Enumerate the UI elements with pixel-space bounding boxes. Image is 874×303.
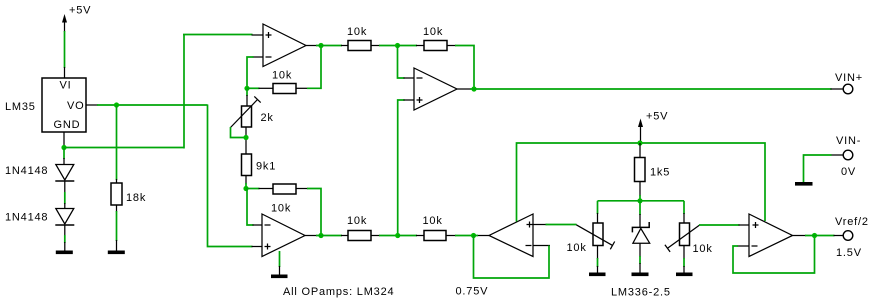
wire D1 to D2 bbox=[64, 181, 66, 209]
wire 2k bottom to 9k1 bbox=[245, 127, 247, 154]
svg-text:0.75V: 0.75V bbox=[456, 286, 489, 298]
resistor R 10k feedback B bbox=[246, 184, 308, 215]
power +5V supply 2 bbox=[638, 111, 668, 144]
wire opamp1 minus input bbox=[247, 57, 263, 89]
resistor R 9k1 bbox=[242, 154, 277, 176]
resistor R 10k top row 1 bbox=[347, 26, 398, 51]
node feedback-A junction bbox=[244, 86, 249, 91]
wire into opamp1 plus input bbox=[183, 34, 263, 37]
zener D3 LM336-2.5 bbox=[611, 201, 671, 299]
wire opamp2 minus input bbox=[398, 46, 415, 78]
diode D2 1N4148 bbox=[5, 209, 74, 226]
ground under left trimmer bbox=[589, 246, 606, 277]
wire opamp3 output bbox=[305, 235, 348, 237]
wire 1k5 bottom bbox=[639, 182, 641, 202]
wire opamp5 plus input to trimmer1 wiper bbox=[533, 224, 577, 226]
trimmer R 10k left bbox=[567, 201, 615, 254]
resistor R 10k feedback A bbox=[247, 70, 308, 94]
trimmer R 10k right bbox=[665, 201, 713, 255]
wire vertical riser to opamp1 bbox=[183, 35, 185, 149]
svg-text:VI: VI bbox=[60, 80, 72, 92]
op-amp U2B bbox=[749, 214, 793, 257]
svg-text:1k5: 1k5 bbox=[650, 167, 670, 179]
op-amp U1A bbox=[263, 24, 306, 67]
wire opamp3 minus stub bbox=[253, 224, 263, 226]
svg-text:+5V: +5V bbox=[69, 5, 91, 17]
wire reference rail bbox=[598, 200, 685, 202]
svg-text:GND: GND bbox=[54, 119, 81, 131]
wire 18k to ground bbox=[116, 205, 118, 251]
node +5V tap bbox=[637, 140, 642, 145]
wire opamp4 output to Vref/2 bbox=[793, 235, 844, 237]
terminal VIN+ bbox=[835, 72, 863, 94]
op-amp U1B bbox=[262, 214, 305, 257]
trimmer R 2k bbox=[231, 88, 274, 127]
node opamp1 output bbox=[318, 43, 323, 48]
op-amp U2A mirrored bbox=[489, 214, 533, 257]
svg-text:10k: 10k bbox=[347, 215, 367, 227]
node divider junction bbox=[395, 233, 400, 238]
node opamp2 output bbox=[471, 86, 476, 91]
node top row junction bbox=[395, 43, 400, 48]
ground under 18k bbox=[108, 251, 125, 255]
wire top reference feedback bbox=[517, 143, 766, 222]
svg-text:LM35: LM35 bbox=[5, 101, 36, 113]
ground opamp3 bbox=[271, 251, 288, 278]
svg-text:2k: 2k bbox=[261, 112, 274, 124]
power +5V supply 1 bbox=[62, 5, 91, 33]
wire opamp4 feedback loop bbox=[733, 236, 815, 274]
wire VO to opamp3 plus input bbox=[208, 105, 263, 247]
wire LM35 GND pin down bbox=[63, 132, 65, 146]
wire 2k wiper to bottom bbox=[231, 127, 247, 138]
resistor R 10k bottom row 3 bbox=[347, 215, 398, 241]
svg-text:VIN-: VIN- bbox=[836, 135, 861, 147]
ground under diodes bbox=[56, 251, 73, 255]
svg-text:10k: 10k bbox=[693, 243, 713, 255]
wire feedback A to output node bbox=[307, 46, 321, 89]
svg-text:1N4148: 1N4148 bbox=[5, 165, 48, 177]
resistor R 1k5 bbox=[635, 158, 671, 182]
op-amp U1C bbox=[414, 68, 457, 110]
wire +5V to 1k5 bbox=[639, 143, 641, 158]
wire VO down to 18k bbox=[116, 105, 118, 183]
svg-text:10k: 10k bbox=[423, 26, 443, 38]
svg-text:10k: 10k bbox=[272, 70, 292, 82]
ground VIN- bbox=[795, 182, 813, 186]
node reference junction bbox=[637, 198, 642, 203]
node opamp4 output bbox=[812, 233, 817, 238]
wire 10k2 to opamp2 output node bbox=[455, 46, 474, 90]
svg-text:LM336-2.5: LM336-2.5 bbox=[611, 287, 671, 299]
ground under right trimmer bbox=[676, 246, 693, 277]
svg-text:0V: 0V bbox=[841, 166, 856, 178]
wire opamp2 output stub bbox=[457, 88, 474, 90]
resistor R 10k top row 2 bbox=[398, 26, 457, 51]
svg-text:9k1: 9k1 bbox=[256, 161, 276, 173]
wire +5V to LM35 VI pin bbox=[64, 31, 66, 78]
resistor R 10k bottom row 4 bbox=[398, 215, 456, 241]
wire diode node horizontal bbox=[64, 147, 184, 149]
wire opamp5 output stub bbox=[474, 235, 490, 237]
wire opamp1 output bbox=[306, 45, 348, 47]
svg-text:All OPamps: LM324: All OPamps: LM324 bbox=[283, 286, 394, 298]
wire trimmer2 wiper to opamp4 plus input bbox=[699, 224, 749, 226]
wire feedback B to output node bbox=[307, 189, 321, 236]
svg-text:10k: 10k bbox=[347, 26, 367, 38]
wire VIN- to ground bbox=[804, 155, 844, 182]
wire diode node to D1 bbox=[63, 148, 65, 165]
wire D2 to ground bbox=[64, 225, 66, 251]
wire opamp2 output to VIN+ bbox=[474, 88, 843, 90]
svg-text:Vref/2: Vref/2 bbox=[835, 216, 869, 228]
IC U3 LM35 bbox=[5, 78, 86, 132]
svg-text:VIN+: VIN+ bbox=[835, 72, 863, 84]
ground under zener bbox=[632, 243, 649, 276]
wire LM35 VO pin bbox=[86, 104, 208, 106]
diode D1 1N4148 bbox=[5, 165, 74, 182]
wire 10k4 to opamp5 output node bbox=[455, 235, 474, 237]
svg-text:1.5V: 1.5V bbox=[836, 247, 862, 259]
wire 9k1 bottom bbox=[245, 176, 247, 189]
svg-text:1N4148: 1N4148 bbox=[5, 212, 48, 224]
resistor R 18k bbox=[111, 183, 146, 205]
node opamp5 output bbox=[471, 233, 476, 238]
node diode junction bbox=[61, 145, 66, 150]
terminal Vref/2 bbox=[835, 216, 869, 259]
terminal VIN- bbox=[836, 135, 861, 178]
svg-text:10k: 10k bbox=[567, 242, 587, 254]
node feedback-B junction bbox=[243, 186, 248, 191]
node 2k-9k1 junction bbox=[243, 135, 248, 140]
svg-text:10k: 10k bbox=[423, 215, 443, 227]
node VO junction bbox=[114, 102, 119, 107]
svg-text:VO: VO bbox=[67, 100, 85, 112]
wire opamp5 feedback loop bbox=[474, 236, 551, 279]
svg-text:+5V: +5V bbox=[646, 111, 668, 123]
wire opamp2 plus input down to divider bbox=[398, 100, 414, 236]
node opamp3 output bbox=[318, 233, 323, 238]
wire opamp3 minus input bbox=[247, 189, 254, 226]
svg-text:10k: 10k bbox=[271, 203, 291, 215]
svg-text:18k: 18k bbox=[126, 192, 146, 204]
